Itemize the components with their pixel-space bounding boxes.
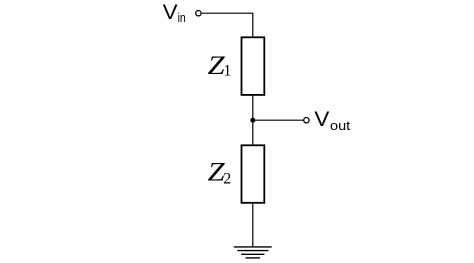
label Z1: [208, 51, 232, 80]
impedance Z2: [242, 145, 265, 203]
svg-text:1: 1: [223, 63, 231, 80]
ground: [234, 247, 272, 258]
wire Vin terminal to Z1 top: [202, 13, 253, 36]
label Vout: [314, 107, 350, 133]
svg-text:in: in: [178, 11, 186, 25]
terminal Vout: [304, 118, 309, 123]
wire Z2 bottom to ground: [252, 204, 254, 247]
wire Z1 bottom to Z2 top: [252, 96, 254, 146]
svg-text:out: out: [330, 118, 351, 133]
label Vin: [163, 0, 186, 25]
impedance Z1: [242, 37, 265, 95]
node junction: [250, 118, 255, 123]
svg-text:V: V: [314, 107, 330, 131]
label Z2: [208, 158, 232, 188]
svg-text:2: 2: [223, 171, 231, 188]
wire junction to Vout terminal: [253, 119, 303, 121]
terminal Vin: [196, 11, 201, 16]
svg-text:V: V: [163, 0, 179, 24]
